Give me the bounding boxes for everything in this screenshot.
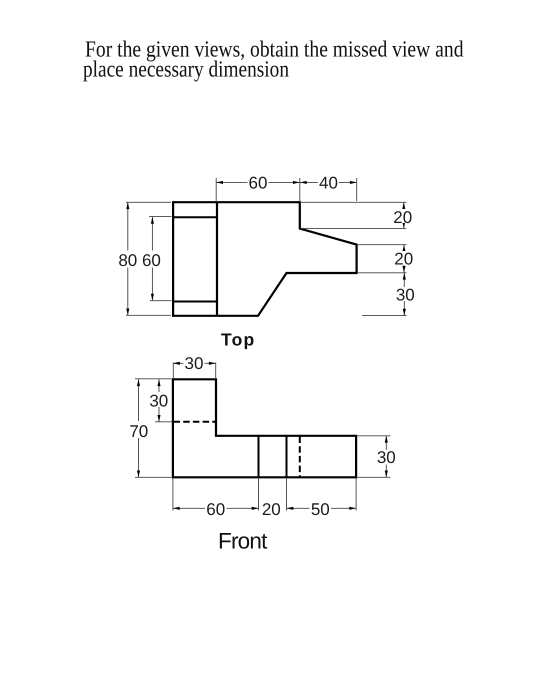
dimension 20 upper right line — [403, 202, 405, 228]
dimension 60 top extension lines — [216, 178, 300, 202]
svg-text:30: 30 — [396, 286, 415, 305]
dimension 30 right front extension lines — [357, 436, 391, 478]
dimension 80 text — [118, 251, 137, 270]
front view hidden vertical edge dashed — [299, 437, 301, 478]
svg-text:50: 50 — [311, 500, 330, 519]
front view inner vertical edge 1 — [258, 436, 260, 478]
dimension 30 right top view line — [403, 273, 405, 316]
dimension 40 arrows — [300, 181, 357, 184]
dimension 30 left front extension line — [155, 421, 172, 423]
dimension 20 upper right text — [393, 208, 413, 227]
dimension 70 text — [128, 421, 148, 441]
svg-text:30: 30 — [149, 392, 168, 411]
dimension 70 line — [138, 379, 140, 477]
dimension 60 top text — [248, 174, 269, 193]
front view inner vertical edge 2 — [286, 436, 288, 478]
dimension 30 top front line — [173, 362, 216, 364]
dimension 60 left arrows — [151, 217, 154, 301]
dimension 30 right top view extension line — [362, 315, 407, 317]
dimension 80 arrows — [126, 202, 129, 315]
dimension 50 bottom arrows — [287, 507, 357, 510]
dimension 20 upper right extension lines — [300, 202, 406, 228]
svg-text:20: 20 — [393, 208, 412, 227]
front view outline — [173, 379, 356, 477]
dimension 20 middle right extension lines — [357, 245, 407, 273]
svg-text:60: 60 — [142, 251, 161, 270]
dimension 60 left text — [142, 251, 161, 270]
dimension 60 bottom arrows — [173, 507, 259, 510]
dimension 60 bottom text — [205, 500, 227, 519]
dimension 20 upper right arrows — [402, 202, 405, 228]
svg-text:Front: Front — [218, 528, 268, 553]
dimension 30 top front arrows — [173, 362, 216, 365]
dimension 30 right front text — [376, 448, 397, 467]
dimension 30 right front line — [385, 436, 387, 478]
dimension 60 left extension lines — [149, 216, 172, 300]
svg-text:30: 30 — [377, 448, 396, 467]
dimension 20 middle right line — [403, 245, 405, 273]
dimension 60 top line — [216, 181, 300, 183]
dimension 20 bottom text — [262, 500, 281, 519]
svg-text:40: 40 — [319, 174, 338, 193]
svg-text:Top: Top — [221, 330, 255, 350]
svg-text:place necessary dimension: place necessary dimension — [83, 56, 289, 81]
dimension 40 extension line — [356, 178, 358, 201]
bottom dimensions extension lines — [173, 478, 356, 511]
dimension 30 left front text — [149, 392, 169, 411]
dimension 60 left line — [151, 217, 153, 301]
svg-text:80: 80 — [118, 251, 137, 270]
dimension 60 bottom line — [173, 507, 259, 509]
dimension 80 extension lines — [126, 202, 171, 315]
dimension 50 bottom line — [287, 507, 357, 509]
dimension 70 arrows — [137, 379, 140, 477]
dimension 20 middle right text — [394, 250, 414, 269]
dimension 30 right front arrows — [385, 436, 388, 478]
dimension 70 extension lines — [135, 379, 172, 478]
dimension 60 top arrows — [216, 181, 300, 184]
dimension 30 top front extension lines — [173, 363, 215, 379]
top view inner vertical edge — [216, 202, 218, 316]
svg-text:60: 60 — [249, 174, 268, 193]
svg-text:30: 30 — [185, 354, 204, 373]
top view inner horizontal edge lower — [173, 301, 217, 303]
svg-text:70: 70 — [129, 422, 148, 441]
label Top — [221, 330, 255, 350]
front view hidden horizontal edge dashed — [174, 421, 217, 423]
dimension 30 top front text — [184, 354, 205, 373]
dimension 40 text — [318, 174, 339, 193]
title text — [83, 37, 464, 82]
dimension 80 line — [127, 202, 129, 315]
label Front — [218, 528, 268, 553]
dimension 30 right top view text — [395, 286, 415, 305]
dimension 30 left front arrows — [157, 379, 160, 422]
top view inner horizontal edge upper — [173, 216, 217, 218]
dimension 40 line — [300, 181, 357, 183]
svg-text:20: 20 — [262, 500, 281, 519]
top view outline — [173, 202, 357, 316]
dimension 20 middle right arrows — [402, 245, 405, 273]
dimension 30 left front line — [158, 379, 160, 422]
dimension 50 bottom text — [310, 500, 332, 519]
svg-text:60: 60 — [206, 500, 225, 519]
dimension 30 right top view arrows — [403, 273, 406, 316]
svg-text:20: 20 — [394, 250, 413, 269]
